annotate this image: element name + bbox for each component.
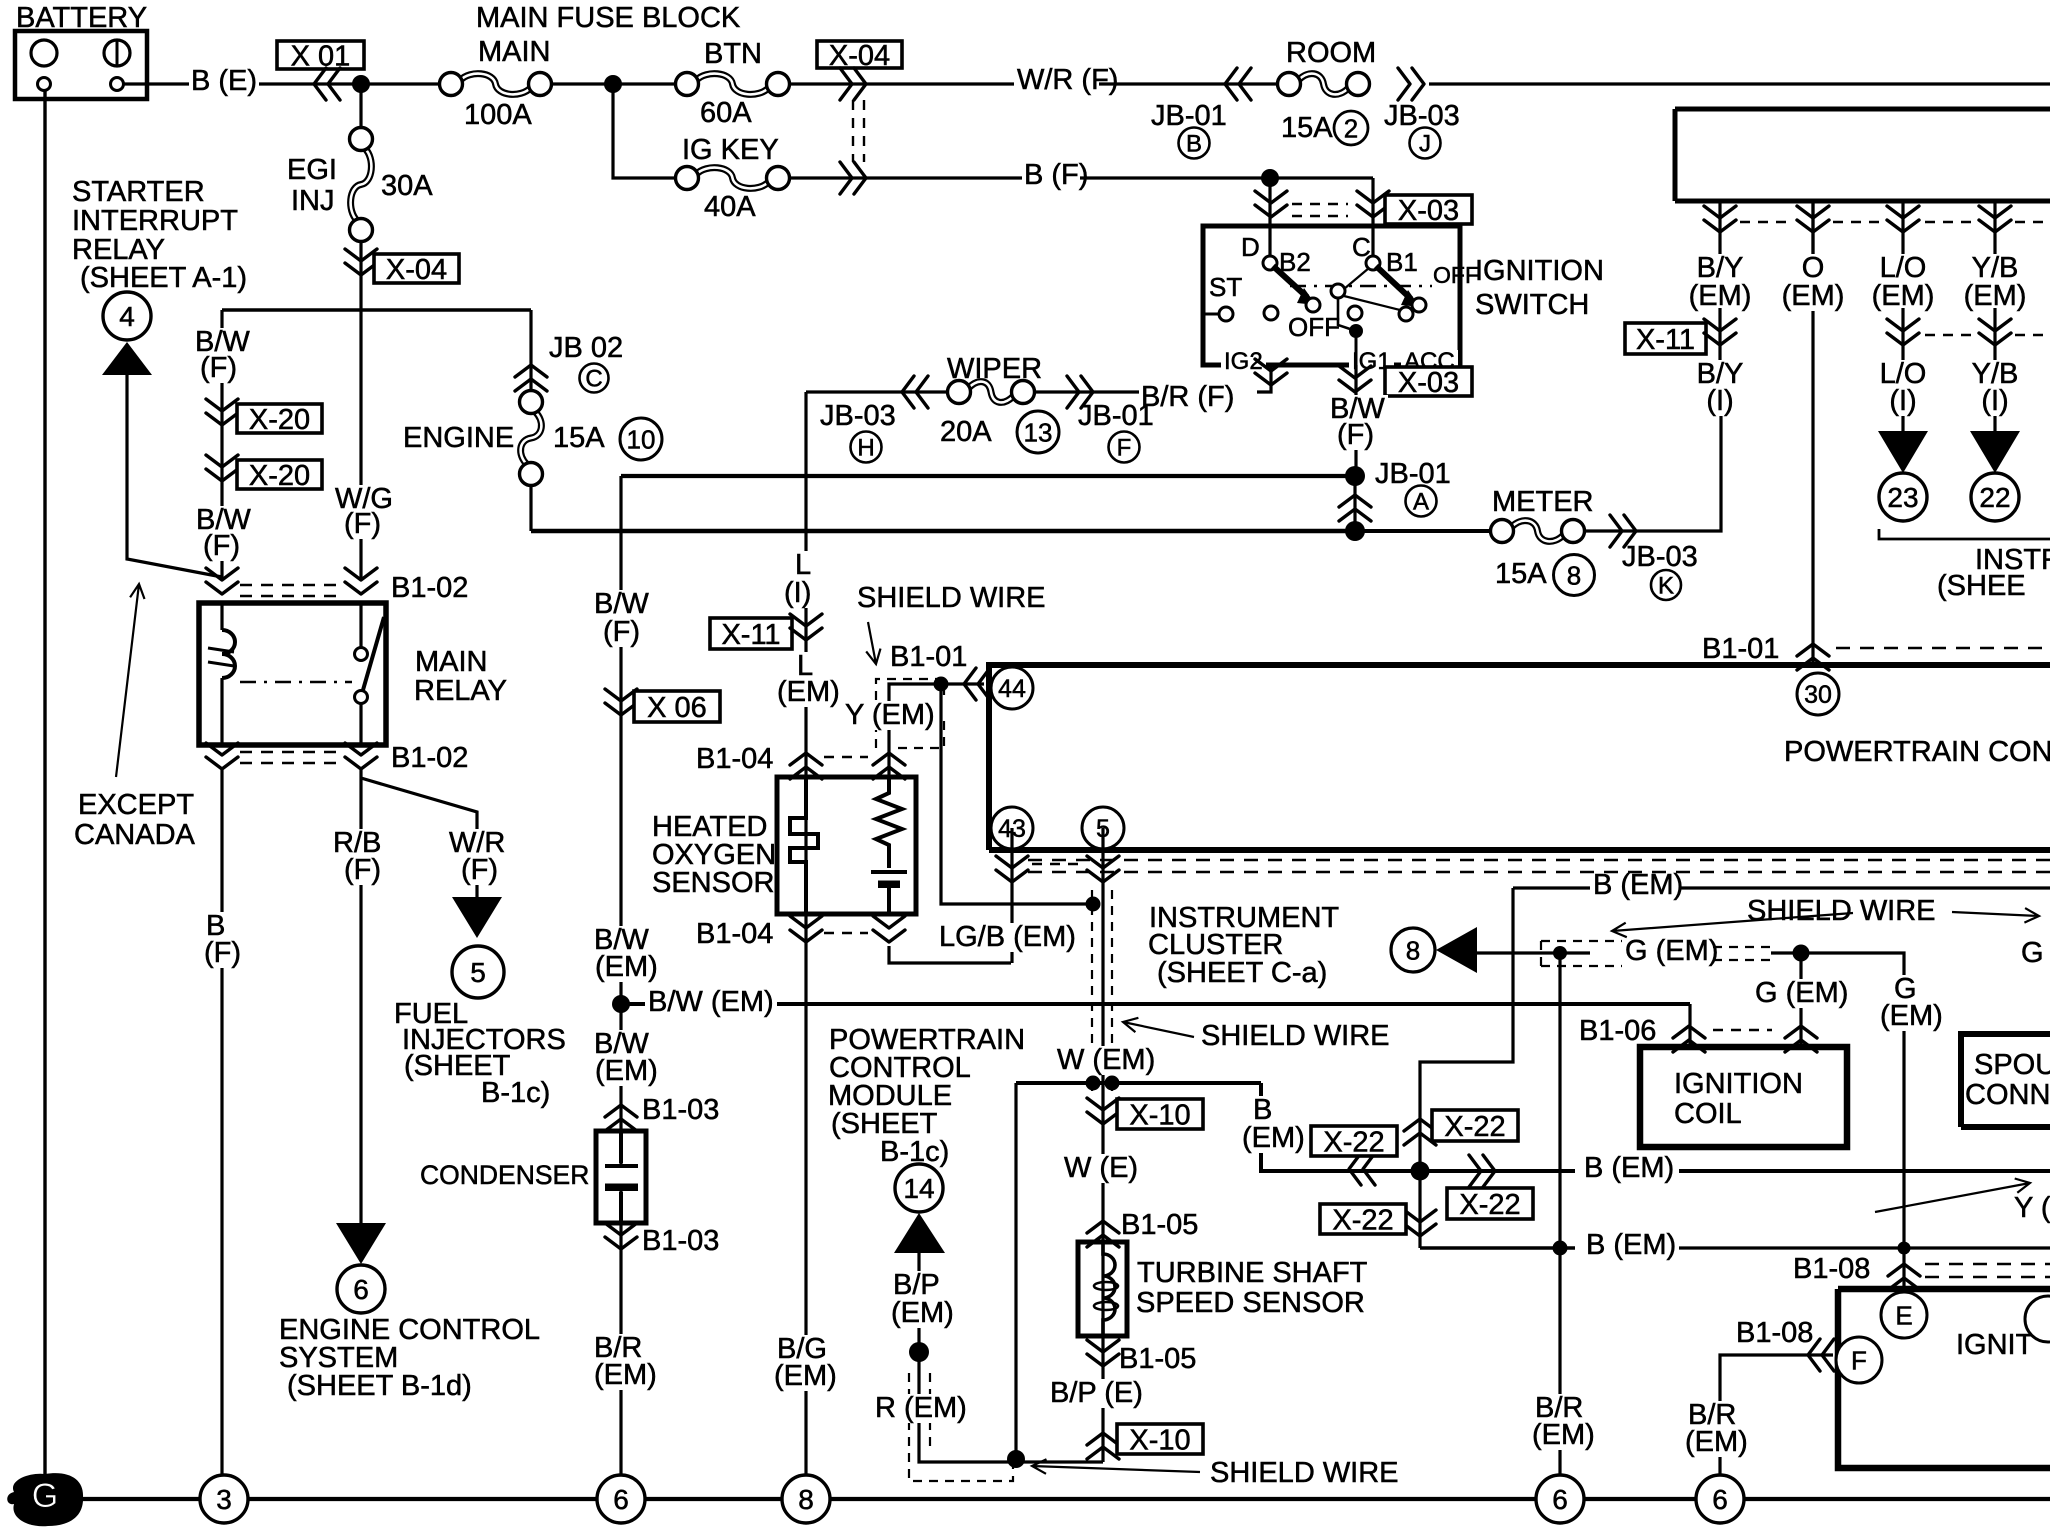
connector chevron B1-04 right top <box>873 753 905 779</box>
svg-text:B1-08: B1-08 <box>1793 1253 1870 1285</box>
shield dashed box G EM <box>1541 940 1622 942</box>
svg-text:(EM): (EM) <box>1685 1426 1748 1458</box>
svg-text:B1-03: B1-03 <box>642 1225 719 1257</box>
label (EM) <box>591 1361 660 1390</box>
heater element comb <box>790 777 818 914</box>
fuse ENGINE 15A <box>521 412 542 465</box>
svg-text:A: A <box>1413 488 1429 515</box>
svg-text:X-03: X-03 <box>1398 195 1459 227</box>
junction node B/P EM <box>909 1342 929 1362</box>
label (EM) <box>1529 1421 1598 1450</box>
svg-text:(F): (F) <box>203 530 240 562</box>
label ACC <box>1401 350 1458 375</box>
connector chevron X-10 lower <box>1087 1433 1119 1459</box>
wire Y (EM) from O2 cell to PCM 44 <box>889 684 984 777</box>
annotation arrow shield left <box>1612 913 1853 937</box>
svg-text:(EM): (EM) <box>1689 280 1752 312</box>
svg-text:CANADA: CANADA <box>74 819 196 851</box>
connector chevron X-22 down <box>1404 1210 1436 1236</box>
wire junction down to IG KEY fuse <box>613 84 676 178</box>
annotation arrow shield wire 1 <box>866 622 880 664</box>
label IG2 <box>1221 350 1266 375</box>
connector chevron X-10 upper <box>1087 1098 1119 1124</box>
shield wire dashed box R EM <box>909 1373 1013 1481</box>
dashed cluster b <box>1833 221 1883 223</box>
label L <box>792 551 814 580</box>
condenser capacitor <box>605 1131 638 1223</box>
connector chevron B1-01 30 <box>1797 644 1829 670</box>
connector chevron X-22 left in <box>1349 1153 1375 1185</box>
svg-text:(F): (F) <box>1337 419 1374 451</box>
wire G EM to igniter E <box>1771 953 1904 1292</box>
wire B/Y to meter <box>1718 308 1721 412</box>
wire B/W EM horizontal <box>621 1002 1690 1006</box>
arrow triangle PCM 14 <box>894 1213 945 1253</box>
svg-text:CONNE: CONNE <box>1965 1079 2050 1111</box>
svg-text:(F): (F) <box>461 854 498 886</box>
wire L/O to 23 <box>1901 308 1904 431</box>
svg-text:OFF: OFF <box>1433 262 1479 288</box>
fuse METER 15A <box>1512 521 1564 542</box>
svg-text:LG/B (EM): LG/B (EM) <box>939 921 1076 953</box>
connector chevron X-01 <box>314 68 340 100</box>
label IG1 <box>1349 350 1394 375</box>
svg-text:IGNIT: IGNIT <box>1956 1329 2034 1361</box>
svg-text:SENSOR: SENSOR <box>652 867 774 899</box>
dashed G EM a <box>1713 946 1771 948</box>
wire cluster pin L/O (EM) <box>1901 201 1904 256</box>
connector box X-03 upper <box>1385 195 1472 224</box>
dashed link X-03 a <box>1292 203 1348 205</box>
connector chevron B1-02 right top <box>345 568 377 594</box>
connector chevron B1-02 right bottom <box>345 743 377 769</box>
annotation arrow shield wire bottom <box>1032 1459 1200 1474</box>
junction node B/W EM <box>612 995 630 1013</box>
svg-text:EXCEPT: EXCEPT <box>78 789 194 821</box>
connector chevron B1 43 <box>996 856 1028 882</box>
fuse WIPER 20A <box>969 382 1014 403</box>
wire O EM column <box>1811 201 1814 665</box>
junction node B EM <box>1411 1162 1430 1181</box>
svg-text:E: E <box>1895 1301 1912 1331</box>
wire corner down to terminal C <box>1371 178 1374 258</box>
PCM terminal 44 <box>991 667 1033 709</box>
label (I) <box>1978 387 2011 416</box>
connector chevron Y/B <box>1979 319 2011 345</box>
wire IG1 to JB-01 A <box>1354 365 1357 476</box>
svg-text:X-11: X-11 <box>1636 324 1695 356</box>
svg-text:W/R (F): W/R (F) <box>1017 64 1118 96</box>
circled number 13 <box>1017 411 1059 453</box>
connector box X-11 right <box>1625 323 1706 354</box>
PCM dashed row a <box>1028 859 2050 861</box>
sheet circle 6 engine control <box>337 1265 385 1313</box>
svg-text:15A: 15A <box>1281 112 1333 144</box>
wire battery ground down left edge <box>43 90 46 1499</box>
wire JB-01 A to meter bus <box>1353 476 1356 531</box>
relay dash-dot link <box>240 681 352 683</box>
svg-text:B1-02: B1-02 <box>391 572 468 604</box>
svg-text:(F): (F) <box>200 352 237 384</box>
svg-text:C: C <box>585 365 602 392</box>
ground circle 3 <box>200 1475 248 1523</box>
svg-text:X-22: X-22 <box>1332 1204 1393 1236</box>
wire bus to engine fuse <box>222 308 531 312</box>
svg-text:13: 13 <box>1024 418 1053 448</box>
ignition switch blade D-OFF <box>1273 266 1307 297</box>
connector chevron JB-01 B <box>1225 68 1251 100</box>
svg-text:F: F <box>1117 434 1132 461</box>
wire W EM column <box>1101 828 1104 1462</box>
connector chevron X-03 lower <box>1339 366 1371 392</box>
svg-text:(EM): (EM) <box>777 676 840 708</box>
svg-text:X-10: X-10 <box>1129 1099 1190 1131</box>
svg-text:INTERRUPT: INTERRUPT <box>72 205 238 237</box>
connector chevron B1-03 upper <box>605 1105 637 1131</box>
svg-text:(I): (I) <box>1706 385 1733 417</box>
label R/B <box>330 829 384 858</box>
label (F) <box>341 856 384 885</box>
wire B EM top right seg <box>1679 886 2050 889</box>
svg-text:X-22: X-22 <box>1459 1189 1520 1221</box>
wire W/R to ROOM fuse <box>1099 82 1277 85</box>
dashed link B1-02 top a <box>240 584 342 586</box>
igniter box <box>1838 1289 2050 1468</box>
label (EM) <box>1239 1124 1308 1153</box>
PCM terminal 30 <box>1797 673 1839 715</box>
svg-text:(EM): (EM) <box>891 1297 954 1329</box>
connector chevron X-03 right <box>1357 191 1389 217</box>
svg-text:BTN: BTN <box>704 38 762 70</box>
circled letter B <box>1179 128 1210 159</box>
svg-text:30: 30 <box>1804 681 1832 709</box>
svg-text:STARTER: STARTER <box>72 176 205 208</box>
wire B/P EM <box>917 1253 920 1352</box>
svg-text:8: 8 <box>798 1484 814 1515</box>
wire relay branch diagonal <box>127 375 222 577</box>
svg-text:(EM): (EM) <box>1872 280 1935 312</box>
arrow triangle 8 <box>1436 927 1477 973</box>
connector chevron B1-01 44 <box>964 668 990 700</box>
dashed B1-06 <box>1713 1029 1772 1031</box>
svg-text:H: H <box>857 434 874 461</box>
svg-text:(EM): (EM) <box>595 951 658 983</box>
label (F) <box>600 618 643 647</box>
wire LG/B from O2 cell to PCM 43 <box>889 946 1011 963</box>
svg-text:(EM): (EM) <box>1964 280 2027 312</box>
connector box X-01 <box>277 41 364 69</box>
connector chevron X-22 right out <box>1469 1155 1495 1187</box>
svg-text:(SHEE: (SHEE <box>1937 570 2026 602</box>
svg-text:(SHEET B-1d): (SHEET B-1d) <box>287 1370 472 1402</box>
svg-text:D: D <box>1241 232 1260 262</box>
PCM dashed row b <box>1028 871 2050 873</box>
label (EM) <box>1686 282 1755 311</box>
svg-text:(F): (F) <box>603 616 640 648</box>
label (F) <box>200 532 243 561</box>
svg-text:ST: ST <box>1209 272 1242 302</box>
wire junction to EGI fuse <box>359 84 362 130</box>
connector chevron JB-01 A <box>1339 495 1371 521</box>
label B <box>1250 1096 1275 1125</box>
wire B EM mid row <box>1261 1083 1575 1171</box>
connector chevron X-11 right <box>1704 319 1736 345</box>
wire BTN fuse to W/R (F) <box>790 82 1014 85</box>
sheet circle 4 <box>103 292 151 340</box>
svg-text:5: 5 <box>470 957 486 988</box>
dashed cluster d <box>2015 221 2050 223</box>
main relay coil <box>220 603 223 630</box>
junction node B2 drop <box>1261 169 1279 187</box>
connector chevron L/O <box>1887 319 1919 345</box>
igniter terminal right partial <box>2025 1296 2050 1342</box>
connector chevron B1-08 upper <box>1888 1264 1920 1290</box>
svg-text:J: J <box>1419 130 1431 157</box>
connector box X-06 <box>634 691 720 722</box>
svg-text:6: 6 <box>613 1484 629 1515</box>
svg-text:ENGINE: ENGINE <box>403 422 514 454</box>
turbine sensor coil <box>1103 1242 1115 1336</box>
svg-text:15A: 15A <box>1495 558 1547 590</box>
ignition switch mechanical link dash-dot <box>1290 285 1432 287</box>
svg-text:B: B <box>1186 130 1202 157</box>
ignition switch box <box>1203 226 1460 365</box>
wire W/R diagonal to fuel injectors <box>361 778 477 897</box>
condenser box <box>596 1131 646 1223</box>
label W (EM) <box>1054 1046 1158 1075</box>
connector chevron IG2 <box>1255 359 1287 385</box>
junction node shield R EM <box>1007 1450 1025 1468</box>
sheet circle 22 <box>1971 473 2019 521</box>
label R (EM) <box>872 1394 970 1423</box>
wire L heater column <box>804 392 807 1475</box>
svg-text:G (EM): G (EM) <box>1755 977 1848 1009</box>
label O <box>1799 254 1828 283</box>
wire igniter F to ground 6 <box>1720 1355 1833 1475</box>
label (F) <box>341 510 384 539</box>
dashed G EM b <box>1713 959 1771 961</box>
wire drop to terminal D <box>1268 178 1271 258</box>
svg-text:B/R (F): B/R (F) <box>1141 381 1234 413</box>
svg-text:3: 3 <box>216 1484 232 1515</box>
wire G EM from triangle <box>1477 951 1541 954</box>
connector chevron X-20 lower <box>206 455 238 481</box>
svg-text:B (EM): B (EM) <box>1586 1229 1676 1261</box>
dashed link B1-01 right <box>1836 647 2050 649</box>
svg-text:(I): (I) <box>1889 385 1916 417</box>
svg-text:B1-03: B1-03 <box>642 1094 719 1126</box>
wire PCM 43 to LG/B <box>1010 828 1013 963</box>
svg-text:2: 2 <box>1344 114 1358 144</box>
svg-text:G (EM): G (EM) <box>1625 935 1718 967</box>
label B <box>203 912 228 941</box>
label B/W (EM) <box>645 988 777 1017</box>
fuse BTN 60A <box>697 74 769 95</box>
ignition switch pivot and contacts IG1 ACC <box>1331 284 1345 298</box>
svg-text:6: 6 <box>1712 1484 1728 1515</box>
dashed link B1-04 bottom <box>824 932 868 934</box>
junction node main feed <box>352 75 370 93</box>
arrow triangle fuel injectors <box>452 897 502 938</box>
svg-text:POWERTRAIN CONT: POWERTRAIN CONT <box>1784 736 2050 768</box>
svg-text:X-22: X-22 <box>1323 1126 1384 1158</box>
label W/G <box>332 485 396 514</box>
svg-text:SPOU: SPOU <box>1974 1049 2050 1081</box>
svg-text:SHIELD WIRE: SHIELD WIRE <box>857 582 1046 614</box>
junction node G drain joins B EM <box>1553 1241 1568 1256</box>
svg-text:6: 6 <box>1552 1484 1568 1515</box>
label (F) <box>201 939 244 968</box>
svg-text:X 06: X 06 <box>647 692 707 724</box>
svg-text:100A: 100A <box>464 99 532 131</box>
wire IG2 stub to B/R (F) <box>1257 365 1271 392</box>
dashed B1-08 b <box>1925 1276 2050 1278</box>
connector box X-22 c <box>1311 1126 1397 1156</box>
annotation arrow shield right <box>1952 908 2039 923</box>
svg-text:B1: B1 <box>1386 247 1418 277</box>
ground circle 6 mid <box>1536 1475 1584 1523</box>
annotation arrow except canada <box>116 584 145 777</box>
svg-text:X-10: X-10 <box>1129 1424 1190 1456</box>
wire W EM horizontal <box>1016 1081 1261 1085</box>
circled letter F <box>1109 432 1140 463</box>
connector chevron B1-05 lower <box>1087 1340 1119 1366</box>
wire IG KEY to B(F) <box>790 176 1022 179</box>
svg-text:8: 8 <box>1406 936 1420 966</box>
junction node shield drain at W <box>1086 897 1101 912</box>
svg-text:IGNITION: IGNITION <box>1674 1068 1803 1100</box>
label (EM) <box>1779 282 1848 311</box>
svg-text:(EM): (EM) <box>1782 280 1845 312</box>
svg-text:X-04: X-04 <box>829 40 890 72</box>
arrow triangle engine control <box>336 1223 386 1264</box>
label G (EM) <box>1622 937 1721 966</box>
powertrain control module box <box>989 665 2050 850</box>
arrow triangle 23 <box>1878 431 1928 473</box>
svg-text:8: 8 <box>1567 561 1581 591</box>
label (I) <box>1703 387 1736 416</box>
junction node to IG KEY <box>604 75 622 93</box>
junction node W EM left <box>1086 1076 1101 1091</box>
dashed link B1-02 bottom a <box>240 751 342 753</box>
wire B/W EM corner to ignition coil <box>1688 1004 1691 1047</box>
wire battery to B(E) <box>124 82 189 85</box>
svg-text:B (EM): B (EM) <box>1593 869 1683 901</box>
wire B/W column lower <box>619 1188 622 1475</box>
wire corner upper bus down <box>619 476 622 531</box>
wire wiper fuse to B/R <box>1035 390 1139 393</box>
svg-text:METER: METER <box>1492 486 1594 518</box>
wire down to JB-02 <box>529 310 532 391</box>
wire W EM left branch down <box>1014 1083 1017 1455</box>
svg-text:6: 6 <box>353 1274 369 1305</box>
svg-text:B1-04: B1-04 <box>696 743 773 775</box>
svg-text:20A: 20A <box>940 416 992 448</box>
connector chevron JB-02 C <box>515 365 547 391</box>
connector dashed link X-04 b <box>863 100 865 162</box>
connector chevron X-04 EGI <box>345 249 377 275</box>
connector chevron JB-03 H <box>902 376 928 408</box>
connector box X-22 d <box>1320 1204 1406 1234</box>
svg-text:B1-05: B1-05 <box>1119 1343 1196 1375</box>
label B/R <box>1532 1394 1586 1423</box>
svg-text:X-11: X-11 <box>721 619 780 651</box>
dashed cluster c <box>1925 221 1975 223</box>
svg-text:23: 23 <box>1887 482 1918 513</box>
svg-text:44: 44 <box>998 675 1026 703</box>
dashed cluster a <box>1740 221 1790 223</box>
svg-text:ROOM: ROOM <box>1286 37 1376 69</box>
wire G EM to ignition coil <box>1799 953 1802 1047</box>
circled number 10 <box>620 418 662 460</box>
wire meter bus <box>531 529 1355 534</box>
connector chevron X-04 on B wire <box>840 162 866 194</box>
wire B/R EM drain <box>1558 1248 1561 1475</box>
ground circle 6 left <box>597 1475 645 1523</box>
svg-text:B1-01: B1-01 <box>890 641 967 673</box>
wire B/W branch left <box>220 310 223 578</box>
svg-text:R (EM): R (EM) <box>875 1392 967 1424</box>
battery terminal circles <box>31 40 57 66</box>
svg-text:W (E): W (E) <box>1064 1152 1138 1184</box>
PCM terminal 43 <box>991 807 1033 849</box>
wire B(E) to MAIN fuse <box>259 82 439 85</box>
svg-text:B (EM): B (EM) <box>1584 1152 1674 1184</box>
label B/R <box>1685 1401 1739 1430</box>
svg-text:OFF: OFF <box>1288 312 1340 342</box>
connector chevron B1-06 left <box>1673 1026 1705 1052</box>
label G (EM) <box>1752 979 1851 1008</box>
label B/P <box>890 1271 943 1300</box>
arrow triangle relay 4 <box>102 342 152 375</box>
connector chevron X-11 left <box>790 614 822 640</box>
sheet circle 8 right <box>1391 928 1435 972</box>
label (EM) <box>771 1362 840 1391</box>
fuse MAIN 100A <box>461 74 531 95</box>
label B/W <box>192 328 253 357</box>
wire wiper feed <box>806 390 948 393</box>
connector chevron B1-02 left top <box>206 568 238 594</box>
circled number 2 <box>1334 111 1368 145</box>
igniter terminal E <box>1881 1292 1927 1338</box>
dashed link X-03 b <box>1292 215 1348 217</box>
svg-text:X-04: X-04 <box>386 254 447 286</box>
label B/Y <box>1694 254 1747 283</box>
svg-text:JB-01: JB-01 <box>1375 458 1451 490</box>
heated oxygen sensor box <box>777 777 916 914</box>
svg-text:COIL: COIL <box>1674 1098 1742 1130</box>
label Y/B <box>1969 254 2022 283</box>
label B/G <box>774 1335 830 1364</box>
svg-text:(SHEET C-a): (SHEET C-a) <box>1157 957 1327 989</box>
circled letter K <box>1651 570 1681 600</box>
ground circle 6 right <box>1696 1475 1744 1523</box>
svg-text:MAIN: MAIN <box>478 36 551 68</box>
dashed link B1-04 top <box>824 756 868 758</box>
connector box X-04 EGI <box>374 254 459 283</box>
circled number 8 fuse <box>1554 555 1595 596</box>
connector chevron B1-08 lower <box>1808 1339 1834 1371</box>
svg-text:IG KEY: IG KEY <box>682 134 779 166</box>
junction node shield drain <box>934 677 949 692</box>
wire Y/B to 22 <box>1993 308 1996 431</box>
main relay box <box>199 603 386 745</box>
svg-text:K: K <box>1658 572 1674 599</box>
svg-text:SHIELD WIRE: SHIELD WIRE <box>1747 895 1936 927</box>
svg-text:X-20: X-20 <box>249 404 310 436</box>
svg-text:60A: 60A <box>700 97 752 129</box>
wire cluster pin Y/B (EM) <box>1993 201 1996 256</box>
